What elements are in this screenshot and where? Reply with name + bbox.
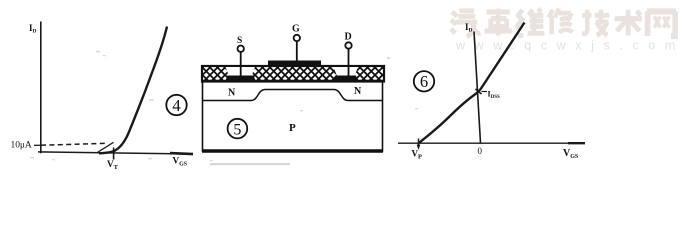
- gate wire: [296, 42, 298, 62]
- svg-text:D: D: [345, 32, 352, 43]
- svg-text:10μA: 10μA: [11, 140, 32, 151]
- Vt tick below axis: [113, 148, 115, 160]
- right graph y-axis: [474, 32, 481, 144]
- svg-text:4: 4: [172, 96, 181, 115]
- 10uA tick on y-axis: [34, 144, 41, 146]
- svg-text:S: S: [237, 36, 242, 46]
- transfer curve (6): [419, 23, 525, 143]
- source wire: [240, 52, 242, 78]
- svg-text:G: G: [292, 24, 300, 35]
- svg-text:VGS: VGS: [563, 148, 579, 160]
- transfer curve (4): [99, 27, 167, 154]
- circled number 5: [228, 119, 248, 139]
- oxide layer with crosshatch: [202, 66, 384, 82]
- svg-text:VGS: VGS: [173, 156, 188, 168]
- watermark char 汽: [451, 11, 480, 37]
- source contact gap (white): [226, 67, 256, 76]
- faint scan noise specks: [30, 51, 418, 161]
- svg-text:P: P: [289, 122, 296, 134]
- source contact metal bar: [226, 76, 256, 81]
- Idss pointer dash: [482, 91, 488, 93]
- drain wire: [348, 49, 350, 77]
- svg-text:ID: ID: [29, 23, 37, 35]
- Idss marker on axis: [476, 89, 482, 95]
- gate terminal circle: [294, 35, 300, 41]
- svg-text:N: N: [228, 87, 236, 98]
- watermark char 网 inner crosses: [654, 16, 669, 27]
- body box thick bottom: [202, 149, 383, 152]
- body box (P substrate): [203, 81, 383, 151]
- dashed line at 10uA level: [41, 143, 108, 145]
- drain contact metal bar: [334, 76, 358, 81]
- drain terminal circle: [345, 42, 351, 48]
- circled number 4: [166, 95, 186, 115]
- left graph y-axis: [40, 22, 42, 154]
- left graph x-axis arrow thickening: [170, 153, 193, 154]
- svg-text:www.qcwxjs.com: www.qcwxjs.com: [455, 39, 679, 53]
- left graph x-axis: [38, 152, 193, 154]
- right graph x-axis: [398, 142, 585, 144]
- scanner shadow under box: [210, 163, 290, 165]
- watermark char 术: [615, 10, 642, 36]
- svg-text:IDSS: IDSS: [488, 90, 501, 101]
- svg-text:6: 6: [420, 72, 428, 91]
- N region boundary (source pocket, channel, drain pocket): [203, 90, 382, 101]
- source terminal circle: [238, 46, 244, 52]
- right graph x-axis arrow thickening: [568, 142, 585, 144]
- watermark char 维: [516, 9, 544, 36]
- drain contact gap (white): [334, 67, 359, 76]
- tangent diagonal at Vt: [97, 142, 114, 153]
- svg-text:VP: VP: [412, 149, 423, 161]
- watermark char 技: [582, 10, 609, 36]
- gate electrode bar: [268, 61, 321, 67]
- circled number 6: [414, 71, 434, 91]
- watermark char 修: [549, 9, 573, 35]
- svg-text:0: 0: [478, 146, 483, 156]
- watermark char 网: [647, 11, 676, 36]
- watermark char 车: [485, 9, 512, 36]
- svg-text:VT: VT: [107, 159, 119, 171]
- oxide bottom border (redraw over contacts): [202, 80, 384, 82]
- svg-text:N: N: [354, 86, 362, 97]
- watermark line1: CJK characters (light): [451, 9, 676, 37]
- Vp tick (small down arrow): [418, 139, 420, 148]
- svg-text:5: 5: [233, 121, 241, 138]
